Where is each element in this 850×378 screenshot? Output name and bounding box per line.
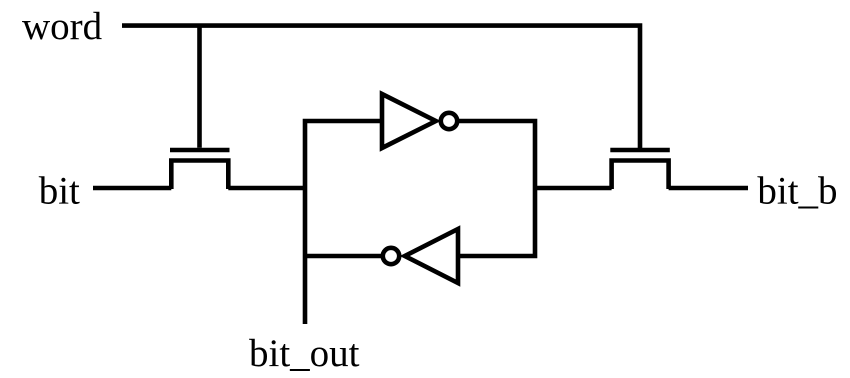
- transistor M1 channel body: [171, 161, 228, 190]
- wire M2 to bit_b: [669, 186, 748, 191]
- inverter U2 triangle: [405, 229, 458, 283]
- wire word line horizontal with right gate drop: [122, 26, 640, 148]
- inverter U2 bubble: [383, 248, 399, 264]
- transistor M2 gate bar: [610, 148, 670, 153]
- wire bit left segment: [93, 186, 171, 191]
- svg-text:bit_b: bit_b: [757, 170, 837, 213]
- wire bit to node A: [228, 186, 305, 191]
- wire U1 output, node B vertical, U2 input: [457, 121, 535, 256]
- wire node B to M2: [535, 186, 612, 191]
- svg-text:bit: bit: [39, 170, 80, 213]
- transistor M2 channel body: [612, 161, 669, 190]
- wire left gate vertical drop: [197, 26, 202, 148]
- wire U2 output to node A: [305, 254, 382, 259]
- inverter U1 bubble: [441, 113, 457, 129]
- svg-text:word: word: [22, 5, 103, 48]
- transistor M1 gate bar: [170, 148, 230, 153]
- inverter U1 triangle: [382, 94, 436, 148]
- wire node A vertical with inverter U1 input: [305, 121, 382, 324]
- svg-text:bit_out: bit_out: [249, 332, 360, 375]
